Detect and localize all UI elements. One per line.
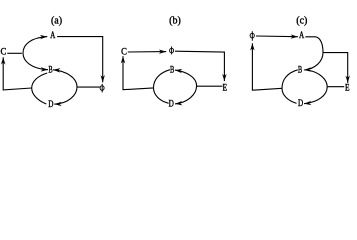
svg-text:(c): (c) — [296, 15, 307, 26]
svg-text:C: C — [1, 47, 7, 57]
svg-text:B: B — [298, 65, 302, 75]
svg-text:B: B — [170, 65, 174, 75]
svg-text:E: E — [223, 82, 228, 92]
svg-text:D: D — [298, 98, 304, 108]
svg-text:(a): (a) — [51, 15, 62, 26]
svg-text:D: D — [48, 99, 54, 109]
svg-text:B: B — [48, 65, 52, 75]
svg-text:C: C — [121, 47, 127, 57]
svg-text:E: E — [345, 83, 350, 93]
svg-text:(b): (b) — [169, 15, 181, 26]
svg-text:A: A — [50, 30, 56, 40]
svg-text:D: D — [169, 99, 175, 109]
svg-text:A: A — [299, 30, 305, 40]
